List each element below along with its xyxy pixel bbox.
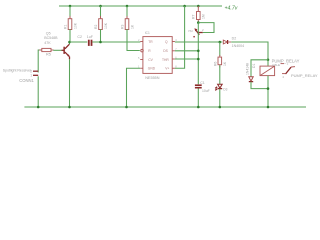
svg-text:+4.7v: +4.7v [225, 5, 238, 11]
diode D1 [249, 77, 253, 82]
wire: emitter down to ground bus [69, 57, 71, 60]
wire: V+ riser from rail [175, 6, 185, 68]
svg-text:10uF: 10uF [202, 89, 210, 93]
node: relay coil / D1 junction [267, 59, 270, 62]
node: TR net junction at R2 [99, 41, 102, 44]
connector CONN1 pin 1 [30, 74, 38, 78]
node: bus junction LED [219, 106, 222, 109]
node: pot bottom junction [197, 21, 200, 24]
svg-text:G5LE: G5LE [272, 63, 280, 67]
svg-text:DS: DS [163, 49, 168, 53]
resistor R5 [39, 48, 53, 51]
svg-text:NE555N: NE555N [145, 76, 160, 80]
wire: R1 top lead [69, 6, 71, 18]
svg-text:D2: D2 [232, 37, 237, 41]
wire: +4.7V top rail [59, 5, 222, 7]
node: bus junction C1 [197, 106, 200, 109]
svg-text:TR: TR [148, 40, 153, 44]
svg-text:P$2: P$2 [188, 29, 193, 33]
svg-text:1N4148: 1N4148 [246, 63, 250, 75]
svg-text:R6: R6 [213, 62, 217, 66]
svg-text:1K: 1K [223, 61, 227, 66]
svg-text:1M: 1M [201, 14, 205, 19]
svg-text:D3: D3 [223, 88, 227, 92]
relay contact [281, 61, 296, 79]
svg-text:10K: 10K [104, 22, 108, 29]
wire: DS pin to pot net [175, 50, 198, 52]
node: bus junction relay [267, 106, 270, 109]
connector CONN1 pin 2 [30, 69, 38, 73]
capacitor C1 [195, 81, 210, 93]
potentiometer R7 top lead [197, 6, 199, 12]
wire: LED branch from Q net [219, 42, 221, 56]
resistor R1 [64, 16, 78, 32]
wire: GND pin to ground bus [127, 68, 141, 107]
svg-text:Q: Q [165, 40, 168, 44]
wire: D1 branch top [251, 60, 268, 77]
resistor R3 [121, 16, 135, 32]
wire: R1 bottom lead to collector node [69, 29, 71, 42]
wire: collector up to node [69, 42, 71, 44]
node: rail junction at R2 [99, 5, 102, 8]
wire: branch to reset pin bubble [127, 42, 140, 51]
node: bus junction IC GND [125, 106, 128, 109]
diode D2 [223, 40, 231, 44]
wire: D1 bottom to coil bottom [251, 82, 268, 89]
node: rail junction at V+ drop [183, 5, 186, 8]
svg-text:1uF: 1uF [87, 35, 94, 39]
node: coil/D1 bottom junction [267, 87, 270, 90]
wire: collector node to C2 [70, 41, 88, 43]
svg-text:PUMP_RELAY: PUMP_RELAY [291, 73, 318, 78]
wire: R6 to LED [219, 65, 221, 84]
transistor Q5 [62, 44, 70, 57]
resistor R2 [94, 16, 108, 32]
svg-text:R3: R3 [121, 25, 125, 29]
node: THR junction [197, 58, 200, 61]
wire: relay coil top lead [267, 60, 269, 66]
LED D3 [215, 84, 227, 91]
svg-text:IC1: IC1 [145, 31, 150, 35]
svg-text:GND: GND [148, 67, 156, 71]
node: bus junction CONN1 [37, 106, 40, 109]
svg-text:R5: R5 [46, 52, 51, 56]
potentiometer R7 [188, 12, 205, 38]
svg-text:1N4004: 1N4004 [232, 44, 245, 48]
wire: input wire from CONN1 to R5 [38, 50, 40, 73]
wire: THR pin to pot net [175, 58, 198, 60]
node: rail junction at R1 [69, 5, 72, 8]
svg-text:Spotlight Receiver: Spotlight Receiver [3, 68, 32, 72]
node: rail junction at R3 [126, 5, 129, 8]
svg-text:C2: C2 [77, 35, 82, 39]
wire: Q output net [175, 41, 222, 43]
svg-text:V+: V+ [165, 67, 169, 71]
svg-text:1: 1 [30, 74, 32, 78]
svg-text:CV: CV [148, 58, 153, 62]
wire: R3 top lead [126, 6, 128, 18]
wire: D2 cathode to relay coil drop [231, 42, 268, 60]
node: rail junction at pot R7 [197, 5, 200, 8]
svg-text:C1: C1 [200, 81, 205, 85]
wire: C2 to TR net [92, 41, 140, 43]
svg-text:Q5: Q5 [46, 31, 51, 35]
wire: R2 bottom lead to TR net [100, 29, 102, 42]
node: Q net junction to LED branch [219, 41, 222, 44]
wire: LED to ground bus [219, 89, 221, 107]
svg-text:BC548B: BC548B [44, 36, 58, 40]
wire: R3 bottom lead to TR net [126, 29, 128, 42]
svg-text:10K: 10K [73, 22, 77, 29]
wire: CONN1 pin1 to ground bus [37, 76, 39, 107]
wire: R2 top lead [100, 6, 102, 18]
svg-text:D1: D1 [252, 64, 256, 68]
wire: C1 bottom to ground bus [197, 89, 199, 108]
node: DS junction [197, 50, 200, 53]
resistor R6 [213, 55, 227, 68]
capacitor C2 (input coupling) [88, 40, 93, 46]
svg-text:R7: R7 [192, 15, 196, 19]
node: bus junction emitter [68, 106, 71, 109]
node: collector/C2 junction [68, 41, 71, 44]
wire: pot bottom down to DS/THR node [197, 23, 199, 85]
IC1 NE555N body [140, 37, 175, 74]
relay K1 coil [260, 66, 275, 76]
ground bus [24, 106, 306, 108]
svg-text:THR: THR [162, 58, 169, 62]
wire: wiper loop [198, 23, 214, 33]
svg-text:CONN1: CONN1 [19, 78, 34, 83]
svg-text:R1: R1 [64, 25, 68, 29]
wire: R5 to Q5 base [53, 49, 61, 51]
svg-text:1K: 1K [130, 24, 134, 29]
relay coil bottom lead to ground bus [267, 76, 269, 107]
svg-text:47K: 47K [44, 41, 51, 45]
svg-text:R2: R2 [94, 25, 98, 29]
